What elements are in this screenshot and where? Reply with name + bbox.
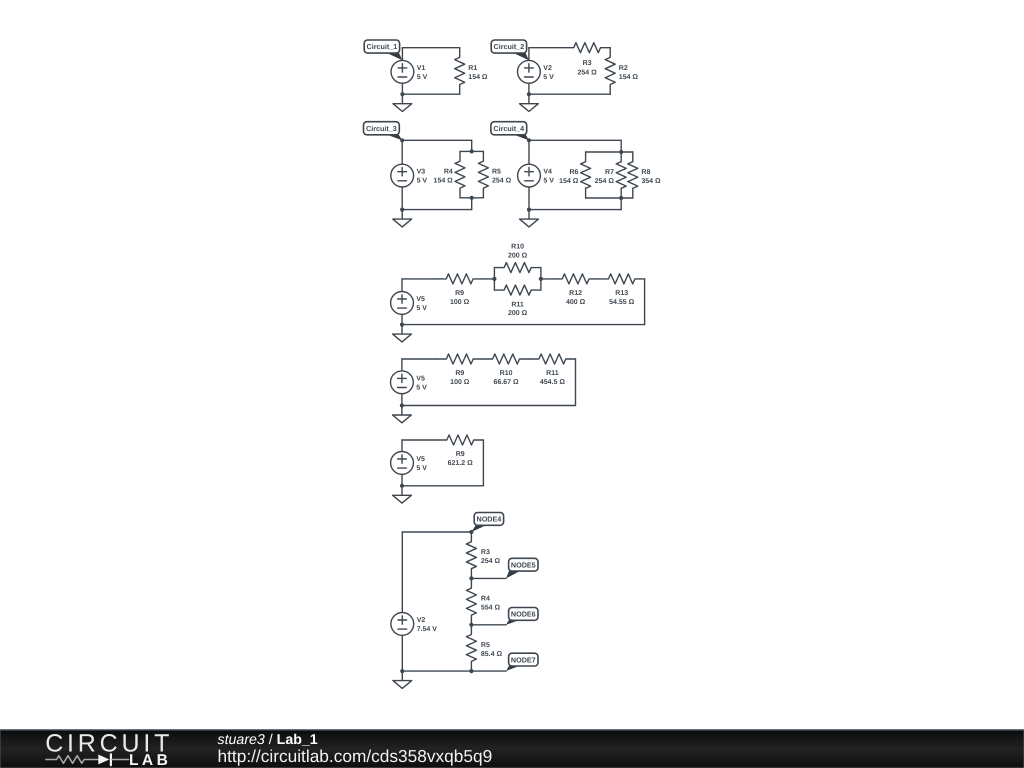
resistor R7 (616, 152, 626, 198)
svg-text:154 Ω: 154 Ω (619, 74, 639, 81)
junction (492, 277, 496, 281)
label R3 254 &#937; (577, 60, 597, 77)
wire (483, 278, 495, 280)
svg-text:R3: R3 (583, 60, 592, 67)
svg-text:R5: R5 (492, 169, 501, 176)
label R8 354 &#937; (641, 169, 661, 185)
wire (471, 198, 473, 210)
wire (620, 140, 622, 152)
svg-text:R4: R4 (444, 169, 453, 176)
svg-text:R13: R13 (615, 290, 628, 297)
svg-text:R11: R11 (546, 370, 559, 377)
resistor R13 (599, 274, 645, 284)
voltage source V1 (391, 48, 414, 94)
svg-text:254 Ω: 254 Ω (481, 558, 501, 565)
junction (469, 530, 473, 534)
svg-text:NODE6: NODE6 (511, 610, 536, 619)
resistor R10 (494, 263, 541, 273)
label R3 254 &#937; (481, 549, 501, 565)
junction (527, 208, 531, 212)
label R11 454.5 &#937; (540, 370, 565, 386)
svg-text:554 Ω: 554 Ω (481, 605, 501, 612)
voltage source V5 (391, 359, 414, 406)
svg-text:154 Ω: 154 Ω (434, 178, 454, 185)
label R11 200 &#937; (508, 301, 528, 317)
label V5 5 V (416, 296, 427, 312)
node flag NODE4 (471, 513, 503, 533)
ground (393, 210, 412, 227)
svg-text:5 V: 5 V (543, 178, 554, 185)
resistor R3 (466, 532, 476, 578)
svg-text:154 Ω: 154 Ω (559, 178, 579, 185)
voltage source V3 (391, 140, 414, 209)
svg-text:R4: R4 (481, 596, 490, 603)
label R9 621.2 &#937; (448, 451, 473, 467)
wire (529, 47, 564, 49)
label V5 5 V (416, 375, 427, 391)
resistor R11 (494, 285, 541, 295)
label R4 554 &#937; (481, 596, 501, 612)
wire (493, 268, 495, 291)
svg-text:NODE4: NODE4 (477, 515, 502, 524)
voltage source V2 (391, 532, 414, 671)
label R12 400 &#937; (566, 290, 586, 306)
svg-text:Circuit_4: Circuit_4 (493, 124, 524, 133)
resistor R9 (437, 274, 483, 284)
resistor R9 (437, 435, 483, 445)
svg-text:R12: R12 (569, 290, 582, 297)
svg-text:5 V: 5 V (416, 384, 427, 391)
resistor R4 (466, 578, 476, 624)
wire (402, 358, 437, 360)
svg-text:R7: R7 (605, 169, 614, 176)
svg-text:254 Ω: 254 Ω (492, 178, 512, 185)
resistor R4 (455, 151, 465, 197)
label V5 5 V (416, 456, 427, 472)
voltage source V4 (518, 140, 541, 209)
svg-text:R11: R11 (511, 301, 524, 308)
wire (402, 405, 576, 407)
resistor R8 (628, 152, 638, 198)
svg-text:5 V: 5 V (543, 74, 554, 81)
svg-text:154 Ω: 154 Ω (468, 74, 488, 81)
svg-text:R9: R9 (455, 370, 464, 377)
label R5 85.4 &#937; (481, 642, 503, 658)
junction (469, 576, 473, 580)
label R5 254 &#937; (492, 169, 512, 185)
svg-text:R8: R8 (641, 169, 650, 176)
wire (644, 279, 646, 325)
label flag Circuit_1 (364, 40, 402, 60)
svg-text:200 Ω: 200 Ω (508, 310, 528, 317)
junction (400, 669, 404, 673)
voltage source V2 (518, 48, 541, 94)
wire (460, 150, 483, 152)
wire (529, 209, 621, 211)
junction (619, 150, 623, 154)
junction (619, 196, 623, 200)
svg-text:V5: V5 (416, 456, 425, 463)
wire (402, 485, 483, 487)
svg-text:100 Ω: 100 Ω (450, 379, 470, 386)
junction (469, 669, 473, 673)
wire (471, 140, 473, 151)
label flag Circuit_3 (364, 122, 403, 141)
svg-text:254 Ω: 254 Ω (577, 69, 597, 76)
wire (402, 139, 472, 141)
resistor R5 (478, 151, 488, 197)
svg-text:R10: R10 (500, 370, 513, 377)
junction (400, 208, 404, 212)
svg-text:5 V: 5 V (416, 305, 427, 312)
label R2 154 &#937; (619, 65, 639, 81)
ground (393, 94, 412, 111)
footer bar (0, 730, 1024, 768)
svg-text:R10: R10 (511, 244, 524, 251)
resistor R2 (605, 48, 615, 94)
label R6 154 &#937; (559, 169, 579, 185)
junction (400, 484, 404, 488)
svg-text:V5: V5 (416, 296, 425, 303)
resistor R5 (466, 625, 476, 671)
svg-text:66.67 Ω: 66.67 Ω (494, 379, 519, 386)
svg-text:http://circuitlab.com/cds358vx: http://circuitlab.com/cds358vxqb5q9 (218, 746, 493, 766)
label flag Circuit_2 (491, 40, 529, 60)
label R10 200 &#937; (508, 244, 528, 260)
junction (470, 196, 474, 200)
svg-text:621.2 Ω: 621.2 Ω (448, 460, 473, 467)
ground (393, 406, 412, 423)
label R13 54.55 &#937; (609, 290, 634, 306)
wire (575, 359, 577, 406)
wire (402, 324, 645, 326)
svg-text:254 Ω: 254 Ω (595, 178, 615, 185)
svg-text:354 Ω: 354 Ω (641, 178, 661, 185)
wire (540, 268, 542, 291)
svg-text:R9: R9 (455, 290, 464, 297)
svg-text:V1: V1 (417, 65, 426, 72)
label V3 5 V (417, 169, 428, 185)
resistor R9 (437, 354, 483, 364)
junction (527, 138, 531, 142)
wire (620, 198, 622, 210)
wire (529, 139, 621, 141)
node flag NODE7 (506, 653, 538, 671)
label V4 5 V (543, 169, 554, 185)
footer url (218, 746, 493, 766)
svg-text:5 V: 5 V (417, 178, 428, 185)
svg-text:7.54 V: 7.54 V (417, 626, 438, 633)
wire (471, 624, 506, 626)
svg-text:V2: V2 (543, 65, 552, 72)
svg-text:85.4 Ω: 85.4 Ω (481, 651, 503, 658)
svg-text:Circuit_1: Circuit_1 (367, 42, 398, 51)
junction (469, 623, 473, 627)
svg-text:400 Ω: 400 Ω (566, 299, 586, 306)
resistor R3 (564, 43, 610, 53)
svg-text:R5: R5 (481, 642, 490, 649)
node flag NODE6 (506, 608, 538, 625)
ground (393, 486, 412, 503)
svg-text:V4: V4 (543, 169, 552, 176)
wire (541, 278, 553, 280)
svg-text:R2: R2 (619, 65, 628, 72)
wire (402, 209, 472, 211)
svg-text:V3: V3 (417, 169, 426, 176)
CircuitLab logo text CIRCUIT (45, 730, 173, 758)
svg-text:NODE5: NODE5 (511, 560, 536, 569)
label V2 5 V (543, 65, 554, 81)
CircuitLab logo resistor-diode glyph (46, 754, 129, 765)
junction (400, 92, 404, 96)
resistor R6 (581, 152, 591, 198)
svg-text:54.55 Ω: 54.55 Ω (609, 299, 634, 306)
label R10 66.67 &#937; (494, 370, 519, 386)
svg-text:454.5 Ω: 454.5 Ω (540, 379, 565, 386)
wire (482, 440, 484, 486)
junction (527, 92, 531, 96)
svg-text:R1: R1 (468, 65, 477, 72)
resistor R1 (455, 48, 465, 94)
label R7 254 &#937; (595, 169, 615, 185)
CircuitLab logo text LAB (129, 752, 171, 768)
resistor R12 (553, 274, 599, 284)
junction (400, 403, 404, 407)
label R9 100 &#937; (450, 370, 470, 386)
junction (400, 138, 404, 142)
resistor R10 (483, 354, 529, 364)
footer title stuare3 / Lab_1 (218, 732, 318, 748)
svg-text:R3: R3 (481, 549, 490, 556)
wire (402, 47, 459, 49)
label V2 7.54 V (417, 617, 438, 633)
svg-text:V2: V2 (417, 617, 426, 624)
svg-text:R9: R9 (456, 451, 465, 458)
node flag NODE5 (506, 558, 538, 578)
svg-text:V5: V5 (416, 375, 425, 382)
svg-text:5 V: 5 V (416, 465, 427, 472)
ground (520, 210, 539, 227)
resistor R11 (529, 354, 575, 364)
junction (470, 149, 474, 153)
label R9 100 &#937; (450, 290, 470, 306)
label R1 154 &#937; (468, 65, 488, 81)
svg-text:LAB: LAB (129, 752, 171, 768)
svg-text:200 Ω: 200 Ω (508, 252, 528, 259)
svg-text:100 Ω: 100 Ω (450, 299, 470, 306)
ground (393, 325, 412, 342)
label R4 154 &#937; (434, 169, 454, 185)
wire (471, 577, 506, 579)
wire (402, 278, 437, 280)
svg-text:Circuit_2: Circuit_2 (494, 42, 525, 51)
svg-text:R6: R6 (569, 169, 578, 176)
voltage source V5 (391, 440, 414, 486)
voltage source V5 (391, 279, 414, 325)
ground (520, 94, 539, 111)
svg-text:NODE7: NODE7 (511, 655, 536, 664)
wire (402, 439, 437, 441)
wire (586, 197, 633, 199)
svg-text:Circuit_3: Circuit_3 (366, 124, 397, 133)
wire (402, 531, 471, 533)
wire (402, 93, 459, 95)
wire (402, 670, 506, 672)
label V1 5 V (417, 65, 428, 81)
wire (460, 197, 483, 199)
label flag Circuit_4 (491, 122, 529, 141)
junction (400, 323, 404, 327)
wire (529, 93, 610, 95)
ground (393, 671, 412, 688)
svg-text:5 V: 5 V (417, 74, 428, 81)
wire (586, 151, 633, 153)
junction (539, 277, 543, 281)
